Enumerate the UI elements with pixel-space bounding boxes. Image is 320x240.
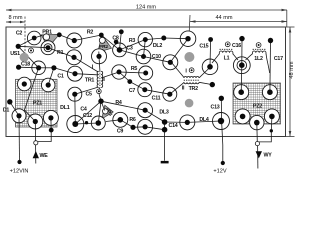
pad center dots: [16, 36, 274, 130]
pad C8: [113, 43, 127, 57]
wire to PZ1 pad: [48, 68, 54, 85]
wire C5 to DL1: [74, 94, 77, 124]
hole mid: [184, 52, 194, 62]
trimmer PR2 body: [98, 35, 112, 52]
test point near C5: [97, 89, 102, 94]
svg-text:8 mm: 8 mm: [9, 15, 23, 21]
svg-text:R3: R3: [129, 38, 136, 44]
wire TR1 from C5: [75, 87, 98, 94]
arrowhead 124mm right: [282, 9, 288, 12]
wire TR1 from C1: [75, 74, 97, 75]
coil L1: [219, 49, 233, 54]
hole US1: [20, 53, 29, 62]
connector pin WY: [255, 142, 259, 146]
trimmer PR3 screw: [103, 108, 109, 114]
pad C1-right: [68, 66, 83, 81]
arrowhead 48mm top: [289, 27, 292, 33]
svg-text:C11: C11: [152, 96, 161, 102]
node PR2: [114, 40, 119, 45]
node gnd: [162, 127, 168, 133]
wire +12V lead: [221, 98, 223, 163]
wire R2: [74, 35, 101, 41]
wire TR1 from R1: [74, 57, 98, 72]
bottom edge extension to dim: [286, 136, 295, 138]
wire TR1 from R5: [103, 72, 119, 78]
wire TR2 to node: [199, 82, 212, 84]
pad C5: [68, 87, 82, 101]
wire C18 left: [19, 66, 39, 69]
pad R1-right: [67, 50, 82, 65]
wire hub to C12 pad: [98, 101, 101, 123]
arrowhead 8mm right: [20, 21, 25, 23]
wire C2 to PR1b: [18, 46, 48, 47]
arrowhead 44mm right: [282, 20, 288, 23]
svg-text:R6: R6: [129, 117, 136, 123]
arrowhead 124mm left: [6, 9, 12, 12]
pad C12-right: [91, 116, 105, 130]
svg-text:C8: C8: [112, 36, 119, 42]
node C2: [16, 44, 21, 49]
pad PZ2 bot-left: [235, 109, 250, 124]
wire L1 lead right: [233, 54, 238, 60]
svg-text:C9: C9: [117, 129, 124, 135]
arrowhead 48mm bottom: [289, 131, 292, 137]
node D1: [7, 99, 12, 104]
pad TR1-top: [92, 49, 107, 64]
pad PZ2 bot-mid: [250, 115, 264, 129]
svg-text:DL1: DL1: [60, 105, 70, 111]
transformer TR1 windings: [97, 71, 103, 88]
node R2: [99, 33, 104, 38]
wire C2 to PR1: [34, 35, 42, 38]
wire C16: [241, 39, 243, 66]
svg-text:C5: C5: [85, 92, 92, 98]
svg-text:124 mm: 124 mm: [136, 4, 157, 10]
wire PZ2 out: [256, 123, 259, 143]
wire hub to PR3: [101, 101, 105, 110]
svg-text:L1: L1: [224, 56, 230, 62]
svg-text:C16: C16: [232, 43, 241, 49]
wire node to PZ1: [10, 102, 19, 116]
wire DL2 left: [145, 38, 164, 40]
svg-text:C18: C18: [21, 62, 30, 68]
node C14: [162, 119, 168, 125]
terminal +12VIN: [17, 160, 21, 164]
pad PZ1 top-right: [41, 78, 55, 92]
ground: [161, 161, 169, 164]
pad DL1: [67, 116, 84, 133]
svg-text:C15: C15: [199, 44, 208, 50]
wire C7: [130, 82, 145, 90]
wire C1: [54, 68, 75, 74]
svg-text:WE: WE: [39, 153, 48, 159]
arrow WE input: [33, 151, 39, 158]
svg-text:R5: R5: [131, 66, 138, 72]
dimension line 8 mm: [6, 21, 25, 23]
test point TR2: [189, 68, 194, 73]
wire R4: [101, 101, 145, 110]
node +12V: [219, 96, 224, 101]
svg-text:44 mm: 44 mm: [215, 15, 232, 21]
pad PZ1 top-left: [18, 77, 32, 91]
node C12: [85, 121, 88, 124]
svg-text:PZ2: PZ2: [253, 104, 262, 110]
svg-text:C3: C3: [126, 46, 133, 52]
hole lower: [185, 99, 194, 108]
wire C12: [75, 123, 98, 124]
svg-text:C17: C17: [274, 56, 283, 62]
extension line 44mm left: [189, 15, 190, 37]
wire gnd link: [145, 127, 165, 130]
svg-text:TR1: TR1: [85, 78, 95, 84]
dimension line 48 mm vertical: [289, 27, 291, 137]
svg-text:C10: C10: [152, 54, 161, 60]
svg-text:D1: D1: [3, 108, 10, 114]
svg-text:+12V: +12V: [213, 169, 226, 175]
pad R4-bottom: [138, 103, 153, 118]
wire PZ1 to node: [50, 118, 52, 130]
pad C7-right: [138, 83, 152, 97]
pad C11-right: [163, 87, 177, 101]
pad C10-right: [163, 55, 178, 70]
wire C14: [164, 122, 166, 130]
trimmer PR3 body: [102, 105, 113, 119]
svg-text:1L2: 1L2: [254, 56, 263, 62]
svg-text:PZ1: PZ1: [33, 101, 42, 107]
transformer TR2 windings: [184, 77, 200, 84]
wire DL2 to C10: [170, 39, 188, 63]
arrowhead 8mm left: [6, 21, 11, 23]
wire PR2 to C8 pad: [101, 35, 119, 50]
extension line right x=287: [286, 10, 288, 27]
wire C4: [75, 101, 101, 124]
pad DL4: [213, 113, 230, 130]
trimmer PR1 body: [41, 34, 59, 47]
wire R6: [133, 126, 145, 129]
wire gnd lead: [164, 130, 166, 161]
pad C14-right: [180, 115, 195, 130]
svg-text:R2: R2: [87, 30, 94, 36]
wire C2 to node: [18, 38, 34, 46]
node C17: [268, 38, 273, 43]
svg-text:DL4: DL4: [199, 117, 209, 123]
wire C1 left: [39, 67, 54, 69]
dimension line 44 mm: [190, 21, 287, 23]
pad DL2-right: [180, 31, 196, 47]
pad C2: [27, 31, 41, 45]
svg-text:C12: C12: [83, 113, 92, 119]
svg-text:C4: C4: [80, 107, 87, 113]
wire US1 diag: [18, 46, 38, 68]
wire TR1 top: [98, 56, 101, 71]
test point L2: [256, 43, 261, 48]
wire TR2 to C15: [199, 68, 210, 78]
connector pin WE: [34, 141, 38, 145]
coil 1L2: [252, 49, 266, 54]
wire C15: [209, 40, 212, 67]
terminal +12V: [221, 161, 225, 165]
node C1: [51, 65, 56, 70]
node C7: [127, 79, 132, 84]
svg-text:48 mm: 48 mm: [289, 61, 295, 78]
pad C18-right: [32, 61, 46, 75]
wire C11: [145, 90, 170, 95]
svg-text:R4: R4: [115, 100, 122, 106]
wire WY lead: [257, 146, 259, 169]
svg-text:US1: US1: [10, 51, 20, 57]
wire node to R2 pad: [59, 35, 74, 41]
arrow WY output: [256, 151, 262, 158]
trimmer PR2 screw: [99, 37, 105, 43]
pad C9: [113, 112, 128, 127]
wire L1 lead left: [212, 54, 219, 63]
wire +12VIN lead: [18, 116, 21, 162]
pad R5-left: [112, 65, 126, 79]
pad PZ2 top-left: [234, 85, 249, 100]
shield can PZ2: [233, 83, 281, 124]
pad C10: [136, 49, 151, 64]
pad PZ1 bot-left: [12, 109, 26, 123]
node C16: [239, 36, 244, 41]
node PR1: [57, 32, 62, 37]
wire hub lead: [99, 93, 101, 101]
wire R3: [120, 40, 146, 50]
trimmer PR1 screw: [43, 34, 49, 40]
pad R2-left: [67, 33, 82, 48]
arrowhead 44mm left: [190, 20, 196, 23]
pad PZ2 bot-right: [264, 109, 279, 124]
wire PR3 to C9: [106, 120, 121, 122]
svg-text:PR1: PR1: [42, 30, 52, 36]
wire TR2 to C10: [172, 63, 184, 78]
node hub: [98, 99, 103, 104]
pad R3-right: [138, 32, 152, 46]
wire TR1 bottom: [99, 88, 100, 89]
svg-text:C13: C13: [211, 104, 220, 110]
node DL2: [161, 36, 166, 41]
pad PZ1 bot-right: [43, 110, 58, 125]
wire R5: [119, 72, 146, 73]
svg-text:C14: C14: [169, 123, 178, 129]
dashed extension line x=25: [24, 17, 26, 57]
svg-text:+12VIN: +12VIN: [10, 168, 29, 174]
wire WE lead: [34, 122, 37, 164]
node TR2: [210, 82, 215, 87]
wire C8 to C10: [120, 50, 144, 57]
node PZ1: [49, 128, 54, 133]
dimension line 124 mm: [6, 9, 287, 11]
wire PR2 to TR1 pad: [98, 52, 100, 57]
wire DL4: [187, 121, 221, 122]
shield can PZ1: [16, 79, 58, 127]
svg-text:C1: C1: [57, 74, 64, 80]
test point C16: [225, 42, 230, 47]
wire node to WE: [38, 130, 51, 141]
node R6: [130, 125, 135, 130]
test point near US1: [29, 48, 34, 53]
pad PZ2 top-right: [262, 85, 277, 100]
svg-text:R1: R1: [57, 50, 64, 56]
svg-text:PR2: PR2: [99, 44, 108, 50]
pad R6-right: [138, 119, 153, 134]
node C18: [16, 65, 21, 70]
svg-text:C2: C2: [16, 31, 23, 37]
node C15: [208, 37, 213, 42]
pad C15-bottom: [202, 59, 218, 75]
node C8: [119, 29, 124, 34]
pad PR1-bottom: [41, 41, 55, 55]
top edge extension to dim: [286, 26, 295, 28]
svg-text:DL3: DL3: [159, 109, 169, 115]
wire C8: [120, 32, 122, 50]
svg-text:DL2: DL2: [153, 43, 163, 49]
svg-text:TR2: TR2: [189, 86, 199, 92]
wire node to WY: [259, 131, 272, 142]
wire DL3 left: [145, 110, 165, 122]
pad PZ1 bot-mid: [28, 114, 43, 129]
node WY: [270, 129, 273, 132]
wire US1 to PZ1: [25, 68, 39, 122]
svg-text:C7: C7: [129, 88, 136, 94]
pad L1-core inner: [237, 60, 247, 70]
board outline: [6, 27, 286, 137]
wire R6 left: [120, 120, 133, 128]
svg-text:WY: WY: [263, 153, 272, 159]
pad PR1-inner: [44, 44, 52, 52]
wire PZ2 to node: [270, 116, 273, 130]
wire L1 core to PZ2: [240, 65, 243, 92]
wire L2 lead left: [246, 54, 253, 60]
wire C10 link: [144, 57, 171, 63]
wire C17: [269, 41, 272, 93]
pads: outlined circles: [12, 31, 279, 134]
wire L2 lead right: [266, 54, 270, 73]
wire C3: [144, 40, 146, 57]
wire TR2 to C11: [170, 82, 184, 94]
pad L1-core outer: [233, 57, 250, 74]
pad R5-right: [139, 66, 153, 80]
wire DL3: [165, 121, 188, 123]
wire DL2: [164, 37, 188, 40]
wire C7 left: [119, 72, 130, 82]
wire R1: [48, 48, 74, 58]
